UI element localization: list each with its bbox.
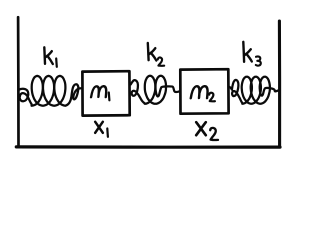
label m1 bbox=[91, 86, 109, 100]
mass m2 box bbox=[180, 69, 228, 114]
left wall bbox=[17, 17, 20, 147]
spring k1 bbox=[19, 76, 82, 106]
label X2 bbox=[196, 122, 218, 140]
label x1 bbox=[95, 122, 108, 137]
floor bbox=[16, 145, 280, 148]
right wall bbox=[278, 21, 281, 147]
label m2 bbox=[191, 86, 215, 101]
label k3 bbox=[243, 42, 261, 66]
spring k2 bbox=[131, 76, 180, 104]
spring k3 bbox=[230, 77, 279, 104]
label k1 bbox=[44, 47, 57, 67]
label k2 bbox=[148, 43, 164, 66]
mass m1 box bbox=[82, 71, 129, 115]
